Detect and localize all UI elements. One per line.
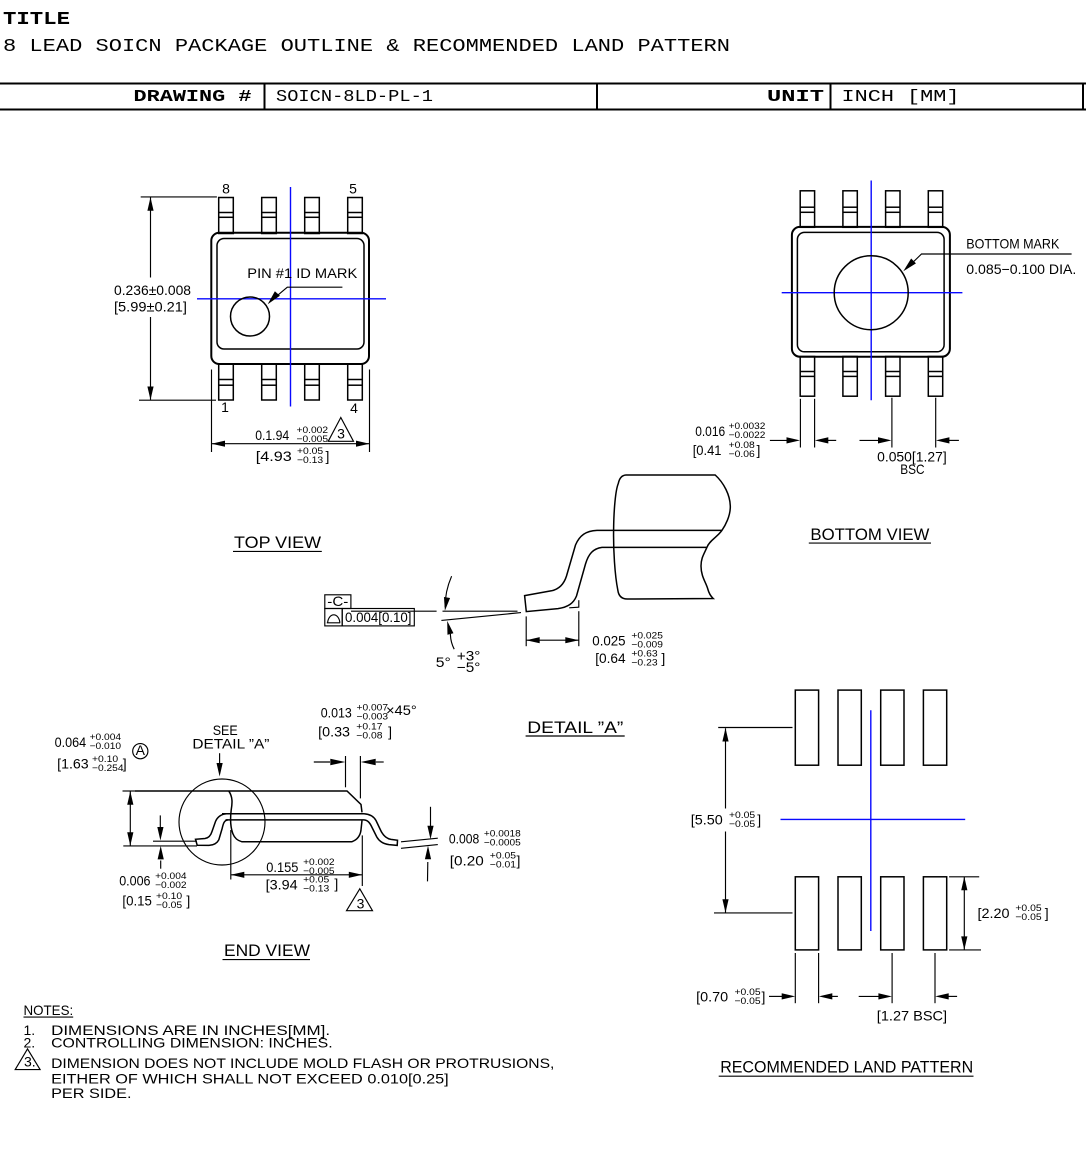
svg-text:−0.05: −0.05 [156, 900, 182, 911]
svg-text:8: 8 [222, 181, 230, 197]
svg-text:SOICN-8LD-PL-1: SOICN-8LD-PL-1 [276, 88, 433, 107]
detail A foot angle line [441, 613, 521, 621]
svg-text:0.025: 0.025 [592, 632, 625, 648]
svg-text:TITLE: TITLE [3, 10, 70, 30]
top view width dimension extension line left [211, 370, 213, 453]
bottom view bottom lead 1 [800, 357, 814, 397]
land pattern pad pitch dimension arrows [859, 995, 879, 997]
top view height dimension extension line top [141, 196, 217, 198]
svg-text:8 LEAD SOICN PACKAGE OUTLINE &: 8 LEAD SOICN PACKAGE OUTLINE & RECOMMEND… [3, 37, 730, 57]
top view vertical centerline [290, 187, 292, 407]
svg-text:−0.05: −0.05 [1015, 912, 1041, 923]
svg-text:0.016: 0.016 [695, 423, 725, 439]
svg-text:INCH [MM]: INCH [MM] [842, 88, 960, 107]
detail A flatness feature control frame [325, 609, 342, 626]
land pattern top pad 1 [795, 690, 818, 765]
top view package body outer outline [211, 233, 369, 364]
svg-text:CONTROLLING DIMENSION: INCHES.: CONTROLLING DIMENSION: INCHES. [51, 1035, 333, 1051]
bottom view top lead 2 [843, 191, 857, 228]
end view lead plane extension lines for thickness dim [401, 838, 438, 842]
detail A gauge corner dashes [569, 606, 579, 609]
top view package body inner outline [217, 239, 364, 350]
bottom view bottom lead 2 [843, 357, 857, 397]
land pattern bottom pad 3 [881, 877, 904, 950]
svg-text:PIN #1 ID MARK: PIN #1 ID MARK [247, 265, 358, 281]
svg-text:[1.27 BSC]: [1.27 BSC] [877, 1007, 947, 1023]
land pattern row pitch extension lines [718, 727, 792, 729]
bottom view package body inner outline [797, 232, 944, 351]
bottom view lead width dimension arrows [770, 439, 787, 441]
svg-text:0.155: 0.155 [266, 859, 298, 875]
svg-text:[0.33: [0.33 [318, 724, 350, 740]
svg-text:UNIT: UNIT [767, 88, 824, 107]
top view horizontal centerline [197, 298, 386, 300]
bottom view lead width dimension extension lines [799, 399, 801, 448]
land pattern horizontal centerline [781, 818, 966, 820]
detail A foot length dimension extension lines [525, 616, 527, 646]
svg-text:]: ] [762, 989, 766, 1005]
svg-text:DRAWING #: DRAWING # [134, 88, 252, 107]
svg-text:−0.05: −0.05 [729, 819, 755, 830]
svg-text:[5.99±0.21]: [5.99±0.21] [114, 299, 187, 315]
end view note 3 flag triangle [347, 889, 373, 911]
svg-text:−0.01: −0.01 [490, 860, 516, 871]
bottom view bottom lead 3 [886, 357, 900, 397]
note 3 flag triangle [15, 1049, 40, 1070]
end view see detail arrow [219, 753, 221, 763]
bottom view top lead 3 [886, 191, 900, 228]
svg-text:]: ] [757, 442, 761, 458]
top view note 3 flag triangle [328, 418, 353, 442]
svg-text:-C-: -C- [327, 593, 348, 609]
svg-text:[0.70: [0.70 [696, 989, 728, 1005]
svg-text:RECOMMENDED LAND PATTERN: RECOMMENDED LAND PATTERN [720, 1058, 973, 1077]
svg-text:3: 3 [357, 895, 365, 911]
land pattern pad width dimension arrows [769, 995, 782, 997]
svg-text:−0.23: −0.23 [631, 657, 657, 668]
svg-text:]: ] [757, 812, 761, 828]
svg-text:0.006: 0.006 [119, 873, 150, 889]
end view chamfer dimension arrows [314, 761, 330, 763]
end view body length dimension line with outward arrows [231, 874, 362, 876]
svg-text:END VIEW: END VIEW [224, 941, 310, 960]
svg-text:DIMENSION DOES NOT INCLUDE MOL: DIMENSION DOES NOT INCLUDE MOLD FLASH OR… [51, 1055, 554, 1071]
end view see detail A circle [179, 779, 265, 865]
top view pin 7 lead [262, 198, 277, 234]
svg-text:0.1.94: 0.1.94 [255, 427, 289, 443]
bottom view pitch dimension arrows [860, 439, 879, 441]
header table divider after UNIT [830, 84, 832, 110]
detail A seating plane datum line [351, 610, 437, 612]
end view lead thickness dimension arrows [430, 807, 432, 826]
svg-text:]: ] [186, 893, 190, 909]
svg-text:0.013: 0.013 [321, 705, 352, 721]
svg-text:−0.254: −0.254 [92, 763, 124, 774]
top view pin 5 lead [348, 198, 363, 234]
svg-text:]: ] [517, 853, 521, 869]
svg-text:3.: 3. [24, 1054, 36, 1070]
bottom mark leader line [906, 254, 1072, 269]
svg-text:PER SIDE.: PER SIDE. [51, 1085, 131, 1101]
svg-text:−0.08: −0.08 [356, 731, 382, 742]
end view left gull-wing lead [196, 814, 229, 846]
land pattern pad length dimension line with arrows [963, 877, 965, 950]
svg-text:0.064: 0.064 [55, 734, 87, 750]
end view height dim extension bottom (seating plane) [123, 845, 197, 847]
svg-text:3: 3 [337, 426, 345, 442]
detail A datum C flag box [325, 595, 351, 609]
svg-text:[0.15: [0.15 [122, 893, 152, 909]
svg-text:−0.002: −0.002 [155, 880, 187, 891]
svg-text:BOTTOM VIEW: BOTTOM VIEW [810, 525, 929, 544]
top view height dimension extension line bottom [139, 399, 216, 401]
detail A angle dimension lower arc arrow [450, 634, 454, 649]
svg-text:×45°: ×45° [386, 702, 417, 718]
svg-text:0.085−0.100 DIA.: 0.085−0.100 DIA. [966, 261, 1076, 277]
svg-text:0.004[0.10]: 0.004[0.10] [345, 609, 412, 625]
top view pin 1 ID mark leader line [271, 287, 343, 301]
detail A angle dimension upper arc arrow [445, 576, 451, 607]
svg-text:]: ] [326, 448, 330, 464]
svg-text:]: ] [661, 650, 665, 666]
svg-text:]: ] [388, 724, 392, 740]
end view lead body-through lines [222, 813, 364, 815]
svg-text:5°: 5° [436, 654, 451, 670]
svg-text:[0.64: [0.64 [595, 650, 626, 666]
bottom view top lead 4 [928, 191, 942, 228]
end view datum A balloon [133, 744, 148, 759]
end view body length dim extension lines [230, 830, 232, 880]
detail A gull-wing lead profile [525, 530, 722, 611]
svg-text:[1.63: [1.63 [57, 756, 89, 772]
svg-text:0.236±0.008: 0.236±0.008 [114, 282, 191, 298]
land pattern vertical centerline [870, 710, 872, 931]
end view chamfer dim extension lines [345, 756, 347, 787]
end view standoff dim extension line [153, 840, 197, 842]
svg-text:−0.005: −0.005 [297, 434, 329, 445]
svg-text:4: 4 [350, 400, 358, 416]
flatness symbol [327, 615, 340, 623]
svg-text:−0.13: −0.13 [297, 455, 323, 466]
land pattern pad pitch extension lines [891, 953, 893, 1003]
land pattern top pad 4 [923, 690, 946, 765]
header table divider after drawing number [596, 84, 598, 110]
svg-text:−0.06: −0.06 [729, 449, 755, 460]
svg-text:TOP VIEW: TOP VIEW [234, 533, 321, 552]
land pattern bottom pad 4 [923, 877, 946, 950]
header table top border [0, 83, 1086, 85]
bottom view bottom mark circle [834, 256, 908, 330]
bottom view horizontal centerline [782, 292, 963, 294]
svg-text:DETAIL ”A”: DETAIL ”A” [527, 718, 623, 737]
svg-text:NOTES:: NOTES: [24, 1002, 74, 1018]
svg-text:2.: 2. [24, 1035, 36, 1051]
svg-text:[0.41: [0.41 [693, 442, 722, 458]
header table right border [1082, 84, 1084, 110]
top view width dimension line with outward arrows [212, 443, 370, 445]
svg-text:BSC: BSC [900, 461, 924, 477]
land pattern pad width extension lines [794, 953, 796, 1003]
land pattern top pad 2 [838, 690, 861, 765]
svg-text:−0.0005: −0.0005 [484, 838, 521, 849]
end view right gull-wing lead [364, 814, 398, 846]
top view pin 4 lead [348, 364, 363, 400]
bottom view bottom lead 4 [928, 357, 942, 397]
svg-text:[4.93: [4.93 [256, 448, 292, 464]
svg-text:−0.05: −0.05 [735, 996, 761, 1007]
svg-text:BOTTOM MARK: BOTTOM MARK [966, 236, 1060, 252]
detail A package body section outline [614, 475, 731, 599]
svg-text:[5.50: [5.50 [691, 812, 723, 828]
header table divider after DRAWING# [264, 84, 266, 110]
detail A foot length dimension line with arrows [526, 639, 579, 641]
top view pin 8 lead [219, 198, 234, 234]
land pattern top pad 3 [881, 690, 904, 765]
svg-text:]: ] [123, 756, 127, 772]
top view pin 1 ID mark circle [231, 297, 270, 336]
svg-text:]: ] [334, 876, 338, 892]
svg-text:A: A [136, 742, 146, 758]
svg-text:1: 1 [221, 399, 229, 415]
land pattern bottom pad 1 [795, 877, 818, 950]
svg-text:[0.20: [0.20 [450, 853, 484, 869]
svg-text:−0.13: −0.13 [303, 884, 329, 895]
svg-text:5: 5 [349, 181, 357, 197]
bottom view vertical centerline [870, 181, 872, 401]
top view pin 1 lead [219, 364, 234, 400]
svg-text:EITHER OF WHICH SHALL NOT EXCE: EITHER OF WHICH SHALL NOT EXCEED 0.010[0… [51, 1070, 449, 1086]
bottom view pitch dimension extension lines [891, 398, 893, 448]
svg-text:DETAIL ”A”: DETAIL ”A” [192, 736, 269, 752]
top view width dimension extension line right [369, 370, 371, 453]
bottom view top lead 1 [800, 191, 814, 228]
end view height dimension line with arrows [123, 790, 135, 792]
land pattern row pitch dimension line with arrows [725, 728, 727, 808]
top view pin 2 lead [262, 364, 277, 400]
svg-text:[3.94: [3.94 [266, 876, 298, 892]
end view package body outline [135, 791, 362, 842]
svg-text:[2.20: [2.20 [978, 905, 1010, 921]
land pattern bottom pad 2 [838, 877, 861, 950]
svg-text:−0.010: −0.010 [90, 741, 122, 752]
svg-text:0.008: 0.008 [449, 831, 480, 847]
top view height dimension line with arrows [150, 197, 152, 277]
header table bottom border [0, 109, 1086, 111]
bottom view package body outer outline [792, 227, 950, 357]
end view standoff dimension arrows [159, 815, 161, 827]
top view pin 3 lead [305, 364, 320, 400]
top view pin 6 lead [305, 198, 320, 234]
svg-text:−5°: −5° [457, 659, 481, 675]
svg-text:]: ] [1045, 905, 1049, 921]
land pattern pad length extension lines [949, 876, 979, 878]
